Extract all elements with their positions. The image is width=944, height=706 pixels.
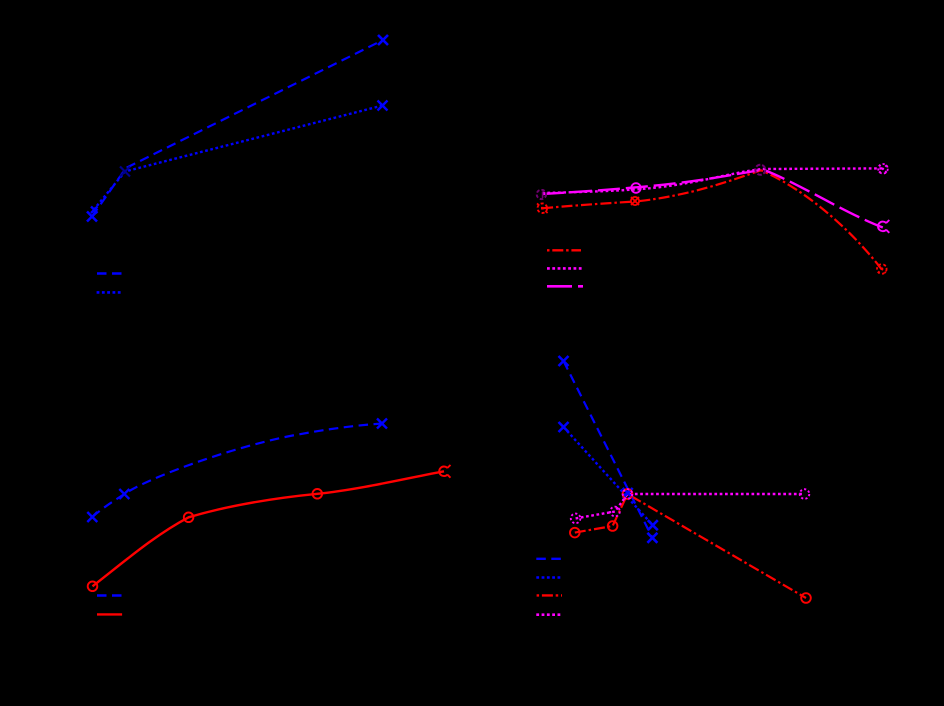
x marker dashed start (92,216.5) [87, 212, 97, 222]
legend bottom-right: blue dashed sample [536, 558, 562, 560]
magenta dotted series line (top-right) [542, 168, 883, 193]
blue dashed series line (bottom-left) [92, 424, 382, 518]
magenta long-dash series line (top-right) [542, 170, 883, 228]
magenta circle marker (804.5,494) [800, 489, 810, 499]
legend bottom-right: red dash-dot sample [537, 594, 562, 596]
magenta circle marker (575.6,518.4) [571, 514, 581, 524]
red circle marker (612.6,526) [608, 521, 618, 531]
blue x marker (652.8,525.2) [648, 520, 658, 530]
x marker dotted end (382.5,105.5) [378, 101, 388, 111]
red circle marker (542,208.3) [537, 203, 548, 213]
blue x marker at crossing (627.7,493) [623, 488, 633, 498]
red solid series line (bottom-left) [93, 471, 445, 586]
blue x marker (124.3,494) [119, 489, 129, 499]
x marker dotted start (93.5,210) [91, 207, 98, 214]
legend top-right: magenta dotted sample [547, 267, 582, 270]
blue dotted series line (bottom-right) [564, 427, 653, 525]
legend top-left: dashed sample [97, 272, 122, 274]
blue x marker (382,423.5) [377, 419, 387, 429]
legend bottom-right: magenta dotted sample [536, 613, 561, 616]
red circle marker at crossing (627.5,494) [623, 489, 633, 499]
blue dashed series line (top-left) [92, 40, 383, 217]
legend top-left: dotted sample [97, 291, 122, 294]
red fragmented circle + x marker (881.8,269) [877, 264, 887, 274]
dark purple circle marker at peak (759.3,169.5) [755, 165, 765, 175]
magenta dotted series line (bottom-right) [576, 494, 805, 518]
magenta circle + x marker (882.8,226.4) [876, 220, 890, 234]
red dash-dot series line (top-right) [542, 170, 882, 269]
legend bottom-left: red solid sample [97, 613, 122, 615]
red circle marker (317.3,493.8) [313, 489, 323, 499]
magenta circle marker at crossing (627.5,494) [623, 489, 633, 499]
dark purple circle marker (541.7,193.9) [537, 190, 546, 199]
red circle marker (92.5,586.3) [88, 582, 98, 592]
blue dashed series line (bottom-right) [564, 361, 653, 538]
blue x marker (652.4,537.8) [647, 533, 657, 543]
red circle + x marker (444,471.3) [437, 465, 451, 479]
red circle marker (806,598) [801, 593, 811, 603]
magenta dotted-circle + x marker (883,168.8) [878, 164, 888, 174]
legend bottom-right: blue dotted sample [536, 576, 561, 579]
blue x marker (92.3,517) [87, 512, 97, 522]
red circle+x marker (635,201) [631, 197, 639, 205]
magenta circle marker (636,188) [631, 183, 641, 193]
red circle marker (574.8,532.6) [570, 528, 580, 538]
blue x marker (563.5,427) [559, 422, 569, 432]
blue x marker (563.5,361) [559, 356, 569, 366]
red dash-dot series line (bottom-right) [575, 494, 806, 598]
magenta circle marker (615,511.5) [610, 507, 620, 517]
red circle marker (188.6,517.3) [184, 513, 194, 523]
blue dotted series line (top-left) [94, 106, 383, 211]
legend top-right: red dash-dot sample [547, 249, 581, 251]
legend bottom-left: blue dashed sample [97, 594, 122, 596]
legend top-right: magenta long-dash sample [547, 285, 583, 288]
x marker dashed end (383,40) [378, 35, 388, 45]
dark navy x marker at bend (125,171.5) [120, 167, 130, 177]
